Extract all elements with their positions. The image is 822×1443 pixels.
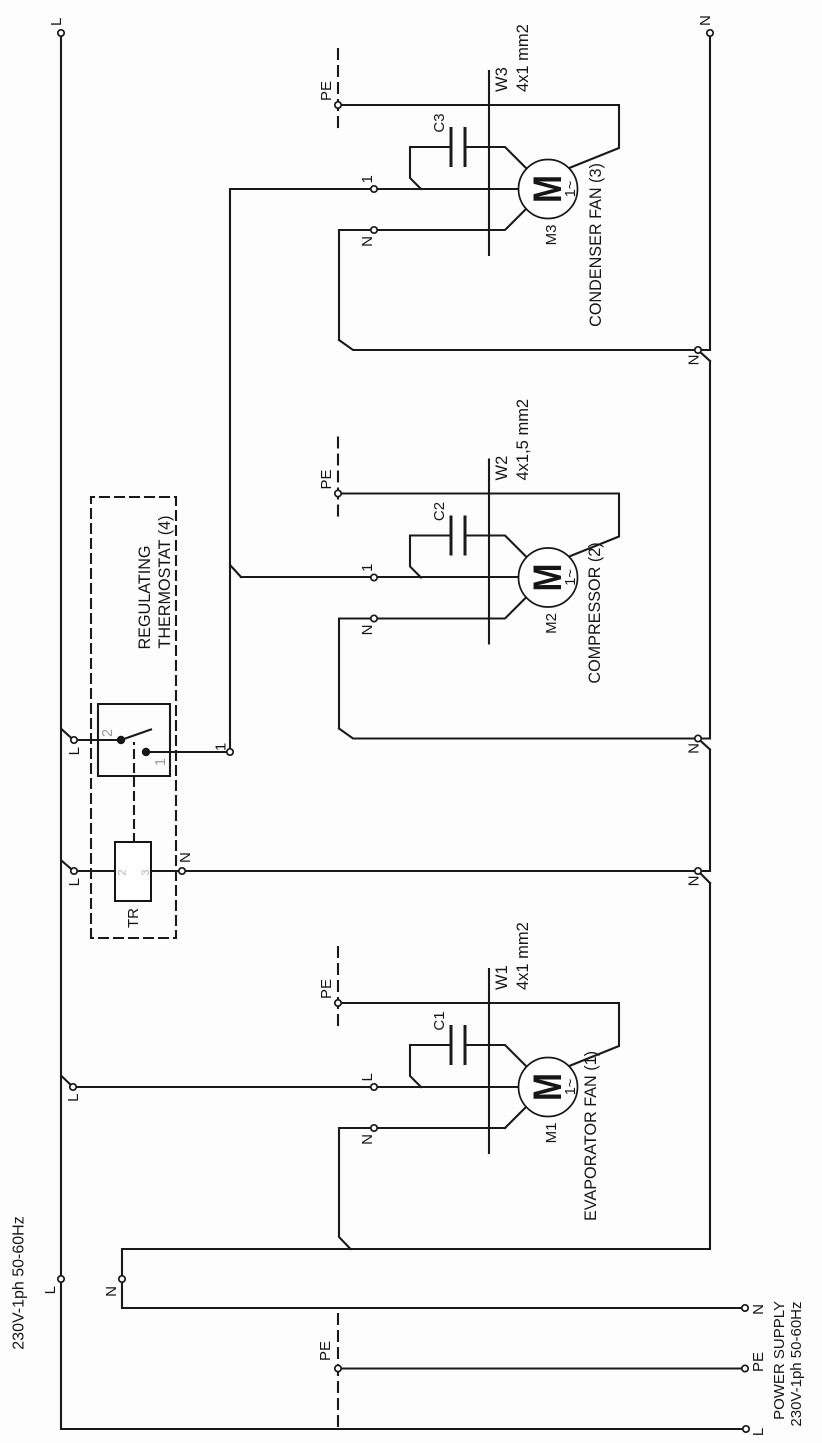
svg-text:W1: W1 — [493, 965, 511, 990]
svg-text:TR: TR — [125, 908, 142, 928]
svg-text:W3: W3 — [493, 67, 511, 92]
svg-text:N: N — [359, 236, 376, 247]
svg-text:1~: 1~ — [563, 569, 579, 586]
svg-text:1: 1 — [359, 564, 376, 572]
svg-text:3: 3 — [140, 869, 152, 875]
svg-text:COMPRESSOR (2): COMPRESSOR (2) — [586, 542, 604, 683]
svg-text:PE: PE — [750, 1352, 767, 1372]
svg-text:C2: C2 — [431, 502, 448, 521]
svg-text:W2: W2 — [493, 456, 511, 481]
svg-text:230V-1ph 50-60Hz: 230V-1ph 50-60Hz — [11, 1216, 28, 1349]
svg-text:PE: PE — [317, 1341, 334, 1361]
svg-text:N: N — [697, 15, 714, 26]
svg-text:REGULATING: REGULATING — [136, 545, 154, 649]
svg-text:1~: 1~ — [563, 1079, 579, 1096]
svg-text:PE: PE — [318, 979, 335, 999]
svg-text:CONDENSER FAN (3): CONDENSER FAN (3) — [587, 163, 605, 327]
svg-text:N: N — [177, 852, 194, 863]
svg-text:PE: PE — [318, 469, 335, 489]
svg-text:L: L — [48, 18, 65, 26]
svg-text:C3: C3 — [431, 113, 448, 132]
svg-text:N: N — [686, 743, 703, 754]
svg-text:N: N — [103, 1286, 120, 1297]
svg-text:M3: M3 — [543, 225, 560, 246]
svg-text:N: N — [359, 625, 376, 636]
svg-text:L: L — [65, 1094, 82, 1102]
svg-text:M1: M1 — [543, 1123, 560, 1144]
svg-text:2: 2 — [117, 869, 129, 875]
svg-text:L: L — [750, 1428, 767, 1436]
svg-text:PE: PE — [318, 81, 335, 101]
svg-text:L: L — [359, 1073, 376, 1081]
svg-text:N: N — [686, 355, 703, 366]
svg-text:4x1 mm2: 4x1 mm2 — [514, 24, 532, 92]
svg-text:M2: M2 — [543, 613, 560, 634]
svg-text:POWER SUPPLY: POWER SUPPLY — [771, 1301, 788, 1420]
svg-text:1: 1 — [153, 758, 169, 766]
svg-text:1~: 1~ — [563, 181, 579, 198]
svg-text:L: L — [42, 1286, 59, 1294]
svg-text:EVAPORATOR FAN (1): EVAPORATOR FAN (1) — [582, 1051, 600, 1221]
svg-text:C1: C1 — [431, 1011, 448, 1030]
svg-text:1: 1 — [213, 743, 230, 751]
svg-text:230V-1ph 50-60Hz: 230V-1ph 50-60Hz — [788, 1302, 805, 1427]
svg-text:2: 2 — [100, 729, 116, 737]
svg-text:1: 1 — [359, 175, 376, 183]
svg-text:L: L — [66, 878, 83, 886]
svg-text:4x1 mm2: 4x1 mm2 — [514, 922, 532, 990]
svg-text:THERMOSTAT (4): THERMOSTAT (4) — [156, 515, 174, 648]
svg-text:N: N — [686, 876, 703, 887]
svg-text:N: N — [359, 1134, 376, 1145]
svg-text:N: N — [750, 1304, 767, 1315]
svg-text:4x1,5 mm2: 4x1,5 mm2 — [514, 399, 532, 481]
svg-text:L: L — [66, 747, 83, 755]
